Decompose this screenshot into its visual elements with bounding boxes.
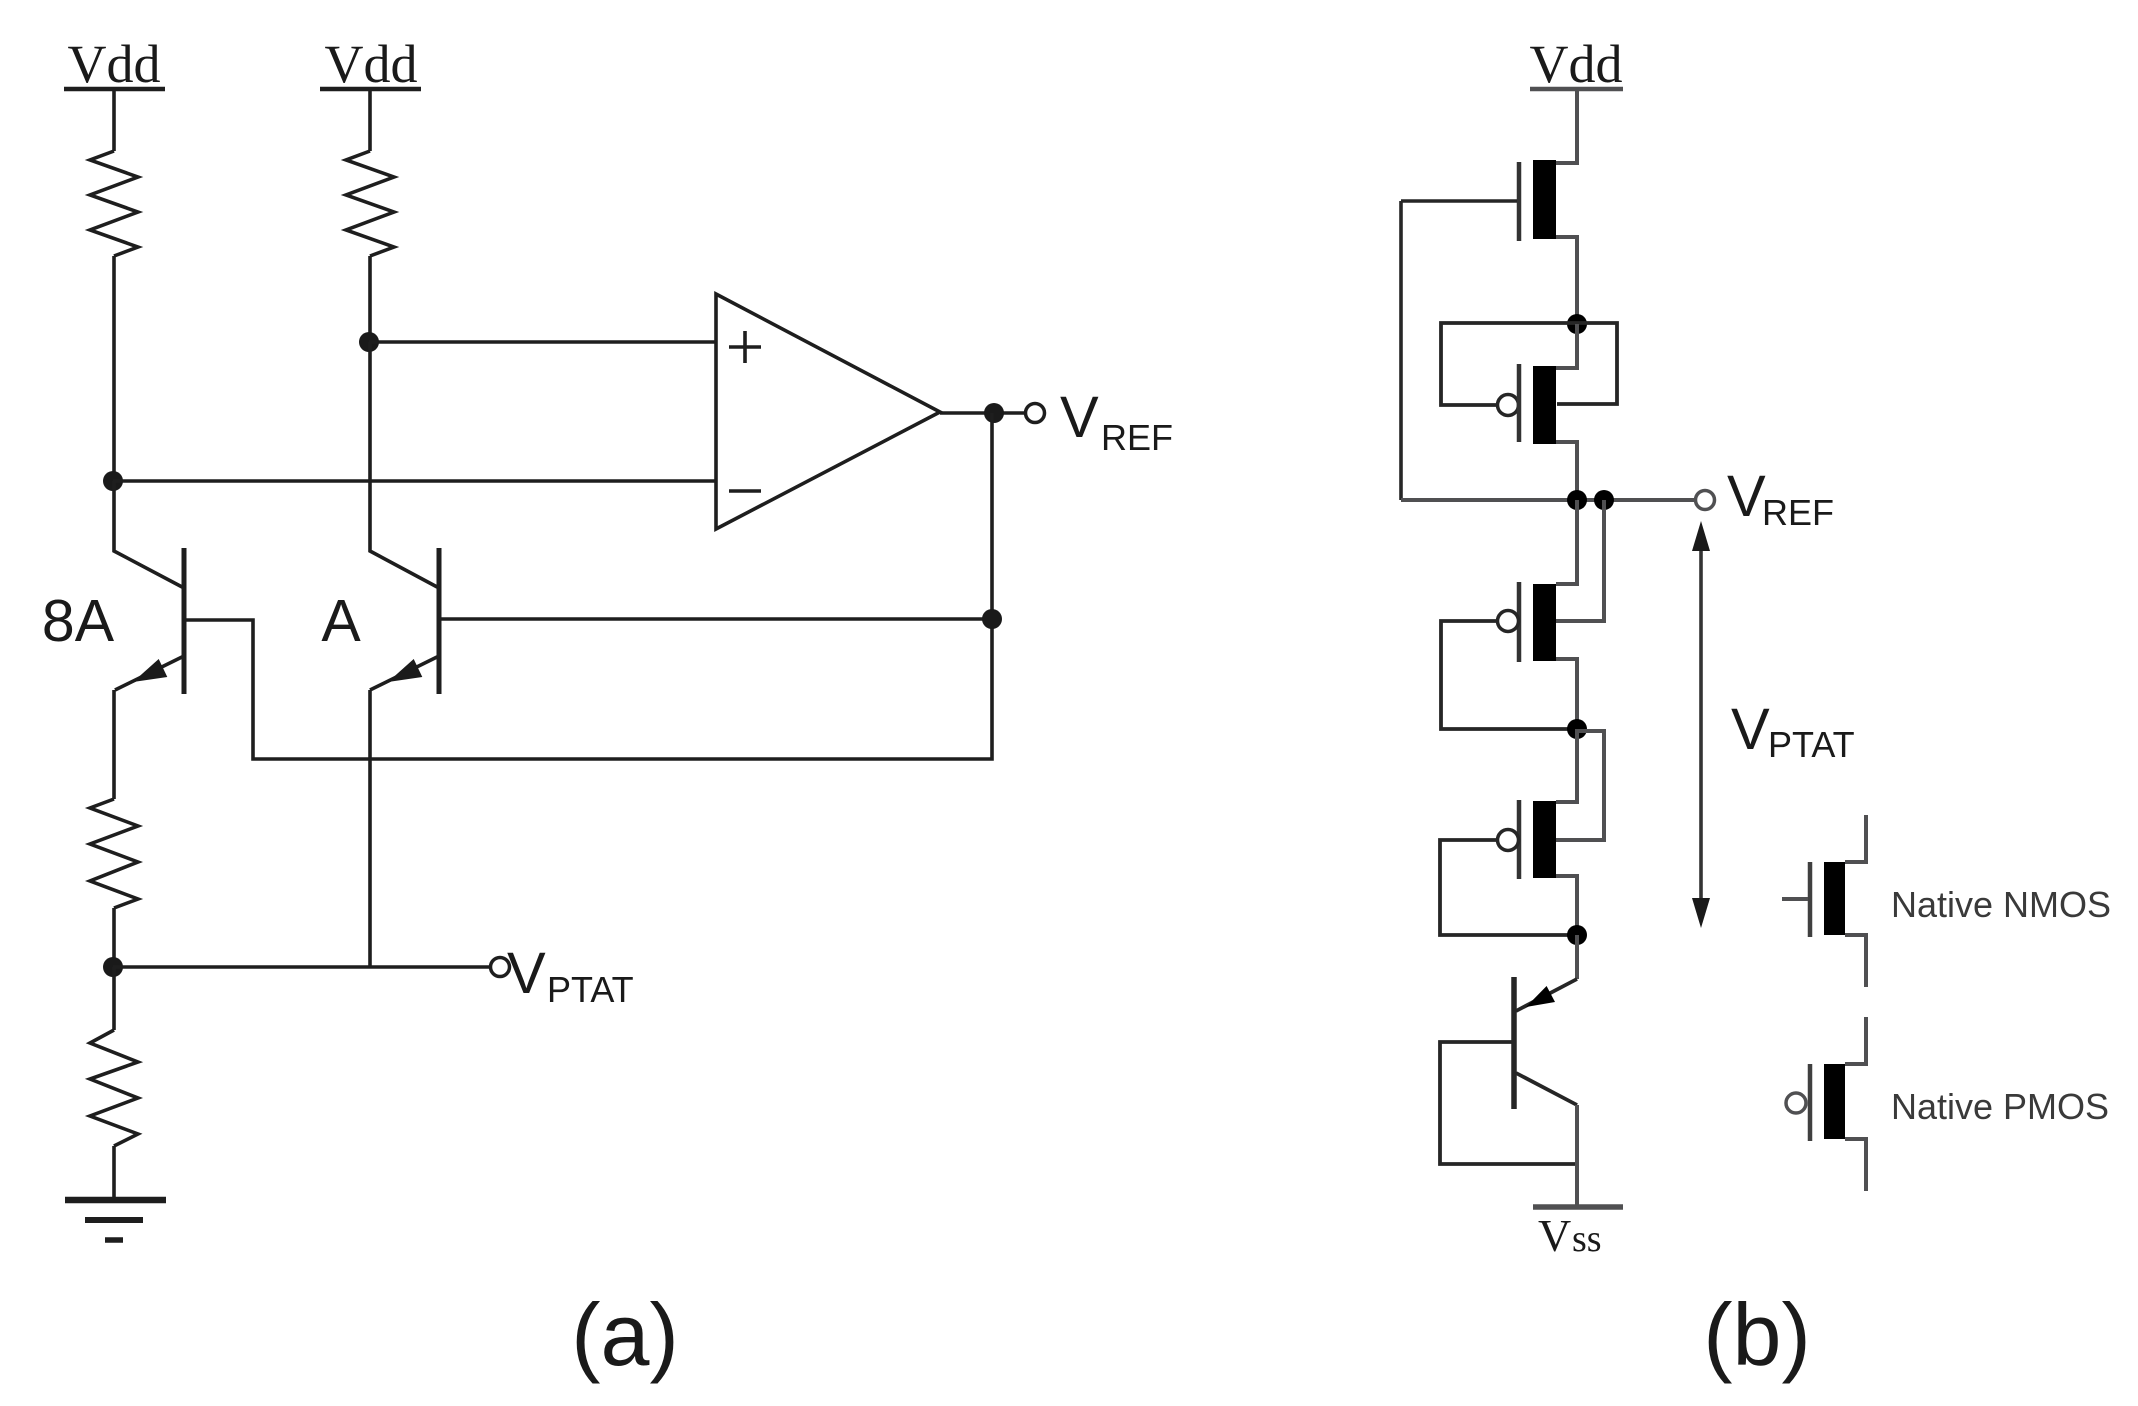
svg-text:(a): (a) bbox=[571, 1285, 679, 1384]
svg-text:REF: REF bbox=[1101, 417, 1173, 458]
wire Q3 collector to Vss bbox=[1575, 1105, 1579, 1205]
transistor M3 (native PMOS) channel bbox=[1533, 584, 1556, 661]
svg-text:Vdd: Vdd bbox=[325, 34, 418, 94]
wire M3 source tap down bbox=[1556, 659, 1577, 729]
node D (junction dot at op-amp output) bbox=[984, 403, 1004, 423]
power Vdd (left rail of fig a) bbox=[64, 34, 165, 94]
node I (junction dot, M3 source / M4 drain) bbox=[1567, 719, 1587, 739]
wire M4 gate loop to source node bbox=[1440, 840, 1577, 935]
wire node B to R3 bbox=[112, 967, 116, 1030]
transistor Q3 base bar bbox=[1511, 977, 1517, 1109]
wire node A to Q1 collector bbox=[114, 481, 184, 588]
label V_PTAT (fig b) bbox=[1731, 697, 1855, 765]
transistor M1 (native NMOS) channel bbox=[1533, 160, 1556, 239]
V_PTAT dimension arrow (double headed) bbox=[1692, 521, 1710, 928]
bubble M3 gate bbox=[1498, 611, 1519, 632]
resistor R1 bbox=[90, 151, 138, 256]
power Vdd (fig b) bbox=[1530, 34, 1624, 94]
svg-text:V: V bbox=[1538, 1210, 1571, 1261]
wire op-amp output to V_REF terminal bbox=[940, 411, 1025, 415]
transistor M1 gate bar bbox=[1517, 162, 1522, 241]
wire node C to op-amp plus input bbox=[369, 340, 716, 344]
resistor R2 bbox=[90, 799, 138, 908]
transistor Q3 emitter with arrow (PNP) bbox=[1516, 979, 1577, 1011]
transistor Q1 emitter with arrow bbox=[115, 656, 184, 690]
legend native NMOS symbol bbox=[1782, 815, 1866, 987]
wire R1 to node A bbox=[112, 256, 116, 481]
svg-text:(b): (b) bbox=[1703, 1285, 1811, 1384]
transistor Q3 collector diagonal bbox=[1516, 1073, 1577, 1105]
wire Q1 emitter to R2 bbox=[112, 690, 116, 799]
svg-text:V: V bbox=[1060, 385, 1099, 450]
wire M4 source tap down bbox=[1556, 876, 1577, 935]
node J (junction dot, M4 source / Q3 emitter) bbox=[1567, 925, 1587, 945]
svg-text:Vdd: Vdd bbox=[1530, 34, 1623, 94]
label V_REF (fig b) bbox=[1727, 464, 1834, 533]
wire node B to V_PTAT terminal bbox=[113, 965, 490, 969]
wire M3 drain from V_REF line bbox=[1556, 500, 1577, 584]
terminal V_PTAT (open circle) bbox=[491, 958, 510, 977]
wire M1 source down bbox=[1556, 237, 1577, 324]
wire node A to op-amp minus input bbox=[113, 479, 716, 483]
node B (junction dot, V_PTAT node) bbox=[103, 957, 123, 977]
svg-text:ss: ss bbox=[1572, 1218, 1602, 1260]
transistor Q1 (8A) base bar bbox=[182, 548, 187, 694]
resistor R4 bbox=[346, 151, 394, 256]
svg-text:Native NMOS: Native NMOS bbox=[1891, 884, 2111, 925]
svg-text:REF: REF bbox=[1762, 492, 1834, 533]
wire Vdd2 to R4 bbox=[368, 89, 372, 151]
label V_REF bbox=[1060, 385, 1173, 458]
wire M3 gate loop to source node bbox=[1441, 621, 1577, 729]
wire R2 to node B bbox=[112, 908, 116, 967]
svg-text:V: V bbox=[1731, 697, 1770, 762]
svg-text:PTAT: PTAT bbox=[1768, 724, 1855, 765]
terminal V_REF (open circle, fig b) bbox=[1696, 491, 1715, 510]
node E (junction dot, feedback to bases) bbox=[982, 609, 1002, 629]
op-amp U1 bbox=[716, 294, 940, 529]
wire M4 bulk tap up to node I bbox=[1556, 731, 1604, 840]
terminal V_REF (open circle) bbox=[1026, 404, 1045, 423]
svg-text:V: V bbox=[507, 941, 546, 1006]
transistor Q2 (A) base bar bbox=[437, 548, 442, 694]
wire M2 gate+bulk loop bbox=[1441, 323, 1617, 405]
legend native PMOS symbol bbox=[1786, 1017, 1866, 1191]
wire Vdd1 to R1 bbox=[112, 89, 116, 151]
svg-text:PTAT: PTAT bbox=[547, 969, 634, 1010]
svg-text:Native PMOS: Native PMOS bbox=[1891, 1086, 2109, 1127]
ground bbox=[65, 1200, 166, 1240]
transistor Q2 emitter with arrow bbox=[370, 656, 439, 690]
power Vss bbox=[1533, 1207, 1623, 1261]
svg-text:Vdd: Vdd bbox=[68, 34, 161, 94]
wire M2 drain tap bbox=[1556, 324, 1577, 368]
wire M2 source tap down to VREF line bbox=[1556, 442, 1577, 500]
wire Q2 emitter down to V_PTAT wire bbox=[368, 690, 372, 967]
label V_PTAT bbox=[507, 941, 634, 1010]
wire M3 bulk tap to V_REF line bbox=[1556, 500, 1604, 621]
transistor M4 (native PMOS) channel bbox=[1533, 801, 1556, 878]
transistor M3 gate bar bbox=[1517, 582, 1522, 662]
svg-text:8A: 8A bbox=[42, 588, 115, 654]
power Vdd (second rail of fig a) bbox=[320, 34, 421, 94]
node A (junction dot, Q1 collector / op-amp minus) bbox=[103, 471, 123, 491]
wire Q2 base to feedback node bbox=[441, 617, 992, 621]
wire V_REF horizontal line bbox=[1401, 498, 1695, 502]
node G (junction dot on V_REF line) bbox=[1567, 490, 1587, 510]
wire Q1 base to feedback net bbox=[186, 619, 992, 759]
svg-text:A: A bbox=[321, 588, 361, 654]
resistor R3 bbox=[90, 1030, 138, 1146]
wire R4 to node C bbox=[368, 256, 372, 342]
node F (junction dot, M1 source / M2 drain) bbox=[1567, 314, 1587, 334]
wire R3 to ground bbox=[112, 1146, 116, 1199]
transistor M4 gate bar bbox=[1517, 800, 1522, 879]
wire Vdd to M1 drain bbox=[1556, 89, 1577, 163]
svg-text:V: V bbox=[1727, 464, 1766, 529]
transistor M2 channel bbox=[1533, 366, 1556, 444]
wire feedback from output down bbox=[990, 413, 994, 619]
wire M1 gate to V_REF line (left feedback) bbox=[1399, 201, 1403, 500]
bubble M2 gate bbox=[1498, 395, 1519, 416]
wire M4 drain bbox=[1556, 729, 1577, 802]
wire Q3 base loop to collector bbox=[1440, 1042, 1577, 1164]
bubble M4 gate bbox=[1498, 830, 1519, 851]
node C (junction dot, Q2 collector / op-amp plus) bbox=[359, 332, 379, 352]
transistor M2 (native PMOS) gate bar bbox=[1517, 364, 1522, 442]
wire node C to Q2 collector bbox=[370, 342, 439, 588]
wire M1 gate lead bbox=[1401, 199, 1517, 203]
node H (junction dot, bulk tie on V_REF line) bbox=[1594, 490, 1614, 510]
wire node J to Q3 emitter bbox=[1575, 935, 1579, 979]
